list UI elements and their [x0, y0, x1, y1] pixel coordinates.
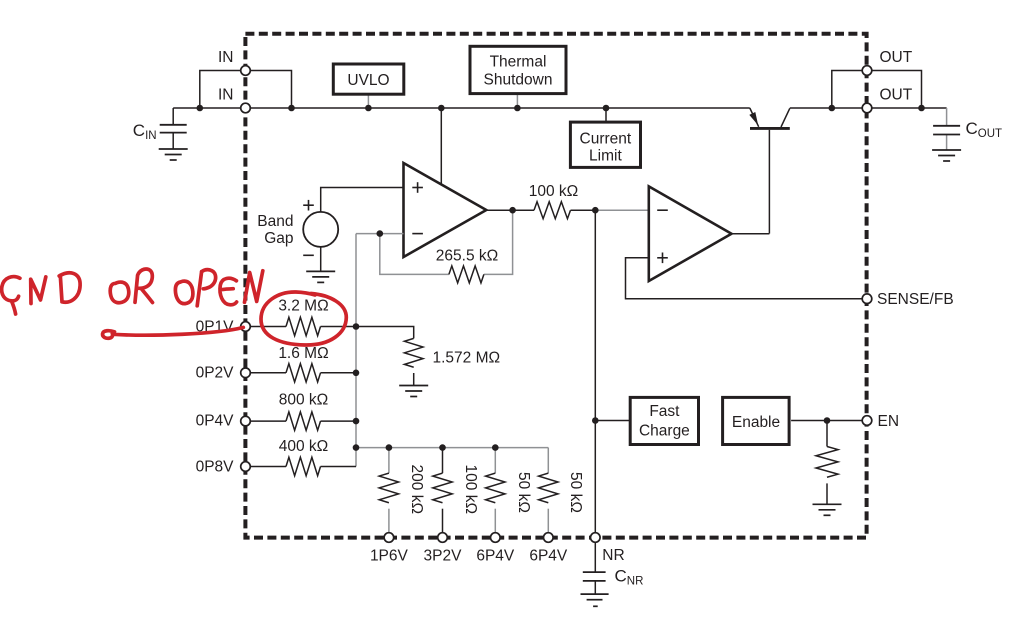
pin IN 2 [241, 103, 251, 113]
node ladder 0P2V [353, 370, 360, 377]
resistor 1.6 MOhm row 0P2V [250, 364, 356, 382]
resistor 200 kOhm column 1P6V [379, 448, 398, 533]
svg-text:200 kΩ: 200 kΩ [408, 465, 425, 515]
capacitor C_NR [583, 542, 606, 594]
node rail 200k [386, 444, 393, 451]
node 100k to U2 [592, 207, 599, 214]
svg-text:Shutdown: Shutdown [484, 71, 553, 88]
wire NR column [594, 210, 596, 537]
node IN join [288, 105, 295, 112]
svg-text:SENSE/FB: SENSE/FB [877, 291, 954, 308]
node U1 output [509, 207, 516, 214]
wire collector rail to OUT pin2 [790, 107, 867, 109]
voltage source Band Gap [303, 200, 338, 255]
wire bottom divider rail (gray) [356, 447, 548, 449]
block Fast Charge [630, 397, 698, 444]
node EN divider tap [824, 417, 831, 424]
svg-text:1P6V: 1P6V [370, 548, 409, 565]
svg-text:IN: IN [218, 87, 234, 104]
svg-text:OUT: OUT [880, 87, 913, 104]
pin NR [591, 533, 601, 543]
svg-text:Gap: Gap [264, 230, 293, 247]
svg-text:400 kΩ: 400 kΩ [279, 438, 329, 455]
svg-text:Enable: Enable [732, 414, 780, 431]
wire U1 - input (gray) [356, 233, 404, 235]
svg-text:50 kΩ: 50 kΩ [567, 472, 584, 513]
svg-text:6P4V: 6P4V [476, 548, 515, 565]
wire U2 output to Q1 base [732, 233, 770, 235]
svg-text:Current: Current [580, 131, 632, 148]
wire U1 feedback loop (gray) [380, 210, 513, 274]
ground below EN resistor [813, 504, 842, 515]
wire U2 + input to SENSE/FB [626, 258, 868, 299]
svg-text:Thermal: Thermal [490, 54, 547, 71]
resistor 100 kOhm [534, 202, 570, 219]
svg-text:IN: IN [218, 49, 234, 66]
svg-text:100 kΩ: 100 kΩ [529, 183, 579, 200]
resistor 265.5 kOhm [449, 266, 484, 283]
svg-text:OUT: OUT [880, 49, 913, 66]
annotation handwritten N 2 [245, 271, 263, 303]
block UVLO [333, 64, 404, 94]
annotation handwritten R [135, 269, 153, 303]
resistor 50 kOhm column 6P4V a [486, 448, 505, 533]
wire OUT pin1 outer lead [867, 71, 922, 109]
svg-text:Band: Band [257, 213, 293, 230]
wire ladder bus (gray) [355, 234, 357, 467]
svg-text:50 kΩ: 50 kΩ [515, 472, 532, 513]
wire node to U2 - input (gray) [595, 209, 649, 211]
node ladder rail [353, 444, 360, 451]
svg-text:UVLO: UVLO [347, 72, 389, 89]
pin 1P6V [384, 533, 394, 543]
node Current Limit tap [603, 105, 610, 112]
wire Current Limit stub [605, 108, 607, 123]
wire Band Gap to ground [320, 247, 322, 272]
wire IN pin1 inner jog to rail [246, 71, 292, 109]
wire main input rail [246, 107, 750, 109]
svg-text:Fast: Fast [649, 403, 680, 420]
op-amp U1 error amplifier [404, 163, 487, 257]
svg-text:0P4V: 0P4V [196, 413, 235, 430]
node ladder 0P1V [353, 323, 360, 330]
svg-text:265.5 kΩ: 265.5 kΩ [436, 248, 498, 265]
node U1 supply tap [438, 105, 445, 112]
svg-text:1.6 MΩ: 1.6 MΩ [278, 345, 328, 362]
wire node to Fast Charge [595, 420, 631, 422]
ground below C_NR [581, 594, 609, 606]
annotation handwritten O 2 [175, 281, 192, 304]
annotation handwritten G [2, 277, 20, 301]
svg-text:3.2 MΩ: 3.2 MΩ [278, 297, 328, 314]
ground below C_IN [159, 149, 188, 160]
resistor 50 kOhm column 6P4V b [539, 448, 558, 533]
block Enable [723, 397, 790, 444]
wire UVLO stub [367, 93, 369, 108]
svg-text:EN: EN [878, 413, 900, 430]
op-amp U2 output buffer [649, 186, 732, 281]
annotation ellipse around 3.2 MOhm [261, 292, 346, 345]
capacitor C_OUT [933, 108, 960, 150]
node UVLO tap [365, 105, 372, 112]
resistor 1.572 MOhm shunt [356, 327, 423, 386]
ground below C_OUT [932, 150, 961, 161]
pin 0P1V [241, 322, 251, 332]
wire Band Gap to U1 + input [321, 188, 404, 212]
svg-text:0P2V: 0P2V [196, 365, 235, 382]
node U1 inverting input [377, 230, 384, 237]
svg-text:Charge: Charge [639, 422, 690, 439]
wire Thermal Shutdown stub [516, 94, 518, 108]
wire OUT pin2 to C_OUT [867, 107, 947, 109]
pin IN 1 [241, 66, 251, 76]
capacitor C_IN [160, 108, 187, 149]
resistor 400 kOhm row 0P8V [250, 457, 356, 475]
wire OUT pin1 inner jog [832, 71, 867, 109]
node C_IN tap [197, 105, 204, 112]
pin 6P4V a [491, 533, 501, 543]
svg-text:1.572 MΩ: 1.572 MΩ [433, 350, 501, 367]
pin SENSE/FB [862, 294, 872, 304]
pin OUT 2 [862, 103, 872, 113]
IC boundary dashed border [245, 34, 866, 538]
pin EN [862, 416, 872, 426]
annotation handwritten P [197, 270, 215, 306]
svg-text:3P2V: 3P2V [424, 548, 463, 565]
transistor Q1 PNP pass element [749, 108, 790, 234]
pin 3P2V [438, 533, 448, 543]
block Current Limit [570, 122, 640, 167]
node OUT join [829, 105, 836, 112]
svg-text:NR: NR [602, 547, 624, 564]
resistor 800 kOhm row 0P4V [250, 412, 356, 430]
node C_OUT tap [918, 105, 925, 112]
node Thermal tap [514, 105, 521, 112]
annotation handwritten N [31, 277, 46, 304]
resistor EN pulldown [816, 421, 838, 505]
svg-text:0P8V: 0P8V [196, 459, 235, 476]
wire Enable to EN pin [791, 420, 867, 422]
node rail 100k [439, 444, 446, 451]
node rail 50k [492, 444, 499, 451]
node NR fast-charge tap [592, 417, 599, 424]
wire 100k to node [571, 209, 596, 211]
svg-text:6P4V: 6P4V [529, 548, 568, 565]
annotation handwritten E [220, 278, 237, 305]
wire IN pin1 outer lead [200, 71, 246, 109]
annotation handwritten D [59, 273, 80, 302]
pin 6P4V b [544, 533, 554, 543]
svg-text:800 kΩ: 800 kΩ [279, 392, 329, 409]
svg-text:100 kΩ: 100 kΩ [462, 465, 479, 515]
node ladder 0P4V [353, 418, 360, 425]
wire U1 output [486, 209, 534, 211]
ground below 1.572 MOhm [399, 386, 428, 397]
pin 0P8V [241, 462, 251, 472]
resistor 3.2 MOhm row 0P1V [250, 317, 356, 335]
svg-text:Limit: Limit [589, 148, 622, 165]
wire C_IN top lead to IN pin2 [173, 107, 245, 109]
ground below Band Gap [306, 271, 335, 282]
resistor 100 kOhm column 3P2V [433, 448, 452, 533]
pin OUT 1 [862, 66, 872, 76]
annotation arrow loop and underline [103, 327, 244, 338]
wire op-amp U1 supply drop [440, 108, 442, 185]
pin 0P2V [241, 368, 251, 378]
annotation handwritten O [110, 282, 129, 303]
pin 0P4V [241, 416, 251, 426]
block Thermal Shutdown [470, 46, 566, 93]
